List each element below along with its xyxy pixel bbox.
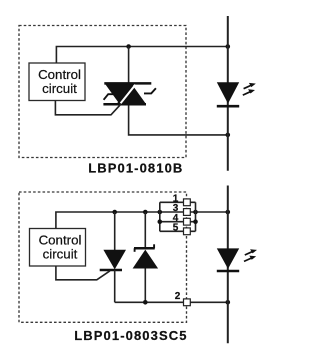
LED D2 flash arrows (244, 249, 257, 261)
SCR Q2 (100, 212, 126, 302)
pin 2 terminal square (184, 299, 191, 306)
LED D2 (bottom) (217, 248, 239, 271)
rung pin 4 (160, 221, 196, 223)
triac Q1 body (103, 83, 151, 104)
node: SCR anode tap (112, 210, 117, 215)
dashed package outline LBP01-0803SC5 (19, 192, 187, 322)
node: main wire to rail (226, 210, 231, 215)
dashed package outline LBP01-0810B (19, 26, 186, 158)
pin ladder left vertical (159, 202, 161, 231)
node: diode cathode tap (143, 210, 148, 215)
wire: gate of triac from control box (55, 101, 120, 115)
control circuit box (bottom) (30, 229, 86, 267)
diode D3 (anti-parallel) (133, 212, 159, 302)
triac left breakover hook (104, 94, 117, 100)
svg-text:2: 2 (175, 291, 181, 302)
node: ladder left rung 4 (158, 219, 163, 224)
rung pin 1 (160, 201, 196, 203)
LED D1 (top) (217, 82, 239, 106)
LED D1 flash arrows (243, 83, 256, 95)
svg-text:circuit: circuit (42, 81, 77, 96)
svg-text:Control: Control (38, 67, 81, 82)
wire: top right rail (227, 16, 229, 171)
node: diode bottom tap (143, 300, 148, 305)
node: ladder right rung 4 (193, 219, 198, 224)
wire: triac vertical (129, 47, 228, 135)
svg-text:circuit: circuit (43, 246, 78, 261)
node: ladder right at rung 3 (193, 210, 198, 215)
pin ladder right vertical (195, 202, 197, 231)
node: bottom wire to rail (226, 300, 231, 305)
triac right breakover hook (144, 88, 156, 93)
wire: bottom return to rail (115, 301, 228, 303)
wire: top box to top rail (56, 47, 227, 64)
svg-text:Control: Control (39, 232, 82, 247)
node: bottom wire to rail (226, 133, 231, 138)
control circuit box (top) (29, 63, 85, 101)
svg-text:LBP01-0810B: LBP01-0810B (88, 161, 183, 176)
node: ladder left at rung 3 (158, 210, 163, 215)
pin 1 terminal square (184, 199, 191, 206)
pin 5 terminal square (184, 228, 191, 235)
wire: gate of SCR from control box (56, 266, 110, 280)
rung pin 5 (160, 230, 196, 232)
wire: bottom box to main wire (56, 212, 228, 229)
node: top wire to rail (226, 44, 231, 49)
node: triac anode tap (126, 44, 131, 49)
pin 3 terminal square (184, 209, 191, 216)
svg-text:5: 5 (173, 223, 179, 234)
pin 4 terminal square (184, 218, 191, 225)
svg-text:LBP01-0803SC5: LBP01-0803SC5 (74, 328, 187, 343)
wire: bottom right rail (227, 186, 229, 344)
